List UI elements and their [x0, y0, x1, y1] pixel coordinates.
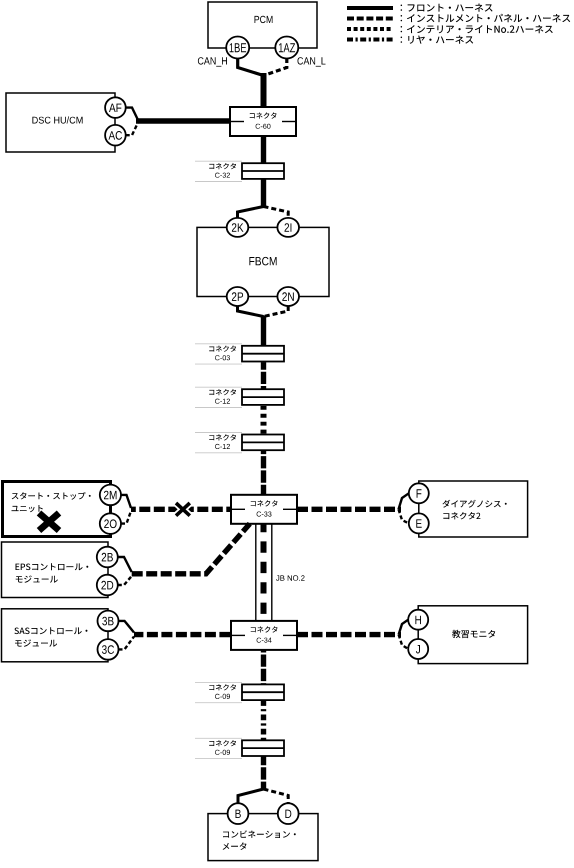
pin 3B	[98, 611, 119, 632]
diagnosis connector 2 label line 2	[443, 512, 480, 519]
pin E	[409, 513, 429, 533]
connector C-03	[195, 344, 284, 364]
splice cut X symbol on wire	[176, 503, 190, 516]
wire C-60 to C-32 (front harness)	[261, 136, 266, 163]
connector C-32	[195, 161, 284, 181]
wire C-09 to combination meter (dashed)	[261, 756, 266, 790]
combination meter label line 2	[223, 842, 247, 850]
EPS label line 2	[16, 575, 58, 582]
wire C-34 to C-09 (instrument panel harness, dashed)	[261, 650, 266, 685]
DSC HU/CM box	[6, 93, 115, 152]
EPS label line 1	[16, 563, 89, 570]
SAS label line 2	[15, 639, 57, 646]
wire from pin 3C (dashed)	[119, 637, 135, 650]
wire branch to pin 2K	[238, 207, 264, 219]
wire from pin 2O (dashed)	[121, 511, 131, 524]
combination meter box	[208, 814, 318, 861]
legend: rear harness label	[401, 36, 474, 44]
wire branch to pin H	[399, 620, 409, 635]
connector C-12 upper	[195, 387, 284, 407]
wire C-32 to FBCM (front harness)	[261, 179, 266, 207]
SAS control module box	[2, 609, 109, 662]
connector C-09 lower	[195, 738, 284, 758]
wire from pin 2D (dashed)	[118, 576, 132, 585]
wire from pin 3B	[119, 621, 135, 633]
start-stop unit box	[3, 482, 111, 537]
wire from pin 2M	[121, 495, 131, 508]
JB NO.2 label	[276, 575, 305, 581]
diagnosis connector 2 box	[419, 481, 528, 537]
wire from pin AC (dashed)	[126, 123, 138, 136]
CAN_L net label	[298, 57, 326, 66]
pin J	[408, 639, 428, 659]
wire C-12 to C-33 (instrument panel harness, dashed)	[261, 451, 266, 495]
wire branch to pin J (dashed)	[399, 635, 409, 649]
diagnosis connector 2 label line 1	[442, 500, 506, 508]
FBCM box	[197, 227, 329, 296]
pin H	[408, 610, 428, 630]
start-stop unit label line 1	[12, 492, 91, 500]
wire CAN_H from pin 1BE	[238, 58, 264, 76]
legend: front harness label	[401, 4, 493, 12]
connector C-60	[230, 107, 296, 136]
DSC HU/CM label	[32, 116, 82, 123]
pin 1AZ	[275, 37, 298, 59]
wire from pin 2B	[118, 557, 132, 572]
connector C-33	[231, 495, 297, 524]
legend: front harness line sample	[347, 6, 393, 10]
pin F	[409, 483, 429, 503]
pin AF	[105, 97, 126, 118]
PCM label	[255, 16, 273, 23]
pin 2B	[97, 547, 118, 568]
wire C-33 to C-34 through JB NO.2 (dashed)	[261, 524, 267, 621]
wire C-03 to C-12 (instrument panel harness, dashed)	[261, 362, 266, 389]
wire trunk PCM to C-60 (front harness)	[261, 73, 267, 108]
combination meter label line 1	[223, 830, 296, 838]
legend: interior light No.2 harness label	[401, 25, 553, 33]
wire branch to pin F	[399, 493, 409, 509]
start-stop unit label line 2	[12, 505, 43, 512]
CAN_H net label	[198, 57, 227, 66]
training monitor label	[452, 630, 495, 638]
connector C-12 lower	[195, 433, 284, 453]
SAS label line 1	[14, 627, 87, 634]
wire C-34 to training monitor (dashed)	[297, 632, 401, 637]
pin 2O	[100, 513, 121, 534]
pin D	[278, 803, 299, 824]
wire branch to pin E (dashed)	[399, 509, 409, 523]
wire branch to pin B	[238, 789, 264, 804]
pin 2M	[100, 485, 121, 506]
not-installed X mark	[39, 513, 59, 531]
pin 2N	[277, 287, 299, 306]
EPS control module box	[2, 542, 109, 598]
pin 2D	[97, 575, 118, 596]
wire SAS to C-34 (instrument panel harness, dashed)	[134, 632, 231, 637]
wire from pin 2N (dashed)	[264, 306, 289, 317]
legend: rear harness line sample	[347, 38, 393, 42]
pin 2K	[227, 218, 249, 237]
wire EPS to C-33 (instrument panel harness, dashed)	[132, 524, 250, 574]
wire branch to pin D (dashed)	[264, 789, 289, 804]
legend: interior light No.2 harness line sample	[347, 27, 393, 31]
wire start-stop to C-33 (instrument panel harness, dashed)	[131, 507, 231, 512]
wire C-33 to diagnosis connector (dashed)	[297, 507, 401, 512]
pin AC	[105, 125, 126, 146]
pin 3C	[98, 639, 119, 660]
wire DSC to C-60 (front harness)	[136, 118, 230, 123]
connector C-34	[231, 621, 297, 650]
connector C-09 upper	[195, 682, 284, 702]
wire C-12 to C-12 (interior light No.2 harness, dotted)	[261, 406, 267, 434]
pin 2I	[277, 218, 299, 237]
wire C-09 to C-09 (rear harness, dash-dot)	[261, 700, 266, 740]
FBCM label	[249, 257, 276, 266]
wire branch to pin 2I (dashed)	[264, 207, 289, 219]
pin 2P	[227, 287, 249, 306]
wire from pin 2P	[238, 306, 264, 317]
wire from pin AF	[126, 108, 138, 120]
legend: instrument panel harness label	[401, 14, 571, 22]
wire CAN_L from pin 1AZ (dashed)	[264, 58, 287, 76]
pin 1BE	[226, 37, 249, 59]
junction block JB NO.2 channel	[256, 524, 272, 621]
PCM box	[208, 2, 317, 48]
wire FBCM to C-03 (front harness)	[261, 316, 266, 346]
pin B	[228, 803, 249, 824]
training monitor box	[418, 606, 527, 664]
legend: instrument panel harness line sample	[347, 17, 393, 21]
